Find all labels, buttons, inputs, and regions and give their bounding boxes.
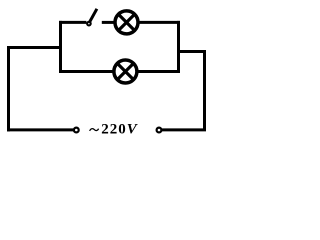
source terminal left [74,128,79,133]
lamp L2 circle [114,60,137,83]
source terminal right [157,128,162,133]
svg-text:220V: 220V [101,122,139,138]
switch S1 pivot [87,22,91,26]
wire left jog from node bar to left edge [7,46,62,49]
wire lamp L1 to right bar [139,21,180,24]
wire lamp L2 to right bar [138,70,180,73]
label tilde (AC sign) [90,129,99,131]
lamp L1 cross [118,14,134,30]
wire bottom left to source terminal [7,128,74,131]
switch S1 lever [90,9,97,22]
wire switch to lamp L1 [102,21,114,24]
node bar right (junction of parallel branches) [177,21,180,73]
lamp L1 circle [115,11,138,34]
wire right edge vertical [203,52,206,130]
wire top branch left segment [59,21,86,24]
wire middle branch left segment [59,70,113,73]
wire right jog from node bar to right edge [179,50,207,53]
node bar left (junction of parallel branches) [59,21,62,73]
wire left edge vertical [7,46,10,131]
lamp L2 cross [117,63,133,79]
wire bottom right from source terminal [162,128,206,131]
